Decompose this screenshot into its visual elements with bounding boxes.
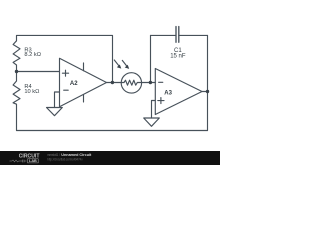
resistor R4	[13, 72, 20, 131]
svg-text:LAB: LAB	[29, 159, 37, 163]
ground below A3	[144, 118, 160, 126]
wire A3 plus input to ground	[152, 101, 156, 119]
op-amp A2 plus mark	[62, 70, 68, 76]
svg-text:10 kΩ: 10 kΩ	[24, 89, 39, 95]
svg-text:15 nF: 15 nF	[170, 53, 186, 59]
photoresistor light arrow 2	[122, 60, 127, 66]
op-amp A3 plus mark	[158, 98, 164, 104]
node R3/R4 junction	[15, 70, 18, 73]
wire node to A2 plus input	[17, 71, 60, 73]
photoresistor circle	[121, 73, 141, 93]
op-amp A2 triangle	[60, 58, 107, 106]
arrowhead 1	[117, 65, 122, 69]
resistor R3	[13, 41, 20, 72]
CircuitLab logo LAB box	[28, 159, 39, 163]
wire photoresistor to A3 minus	[142, 82, 156, 84]
wire right vertical	[207, 35, 209, 130]
op-amp A2 power stubs	[83, 63, 85, 102]
svg-text:http://circuitlab.com/c49474v: http://circuitlab.com/c49474v	[47, 157, 82, 161]
wire top-left loop	[17, 35, 113, 81]
op-amp A3 minus mark	[159, 81, 163, 83]
wire A3 output to right vertical	[202, 91, 208, 93]
CircuitLab logo squiggle	[10, 160, 27, 163]
wire A2 minus input to ground	[55, 92, 60, 108]
wire C1 drop to A3 minus input	[150, 35, 152, 82]
svg-text:A3: A3	[164, 91, 172, 97]
node A3 output junction	[206, 90, 209, 93]
svg-text:A2: A2	[70, 81, 78, 87]
op-amp A3 triangle	[155, 69, 202, 115]
op-amp A2 minus mark	[64, 89, 68, 91]
photoresistor light arrow 1	[114, 60, 119, 66]
wire A2 output to photoresistor	[107, 82, 122, 84]
node A3 minus junction	[149, 81, 152, 84]
ground below A2	[47, 108, 63, 116]
wire top-right loop right segment	[179, 34, 208, 36]
svg-text:8.2 kΩ: 8.2 kΩ	[24, 52, 41, 58]
wire bottom	[17, 130, 208, 132]
capacitor C1	[176, 27, 179, 43]
node A2 output junction	[111, 81, 114, 84]
arrowhead 2	[125, 65, 130, 69]
photoresistor zigzag	[121, 80, 141, 85]
footer bar	[0, 151, 220, 165]
wire top-right loop left segment	[151, 34, 177, 36]
